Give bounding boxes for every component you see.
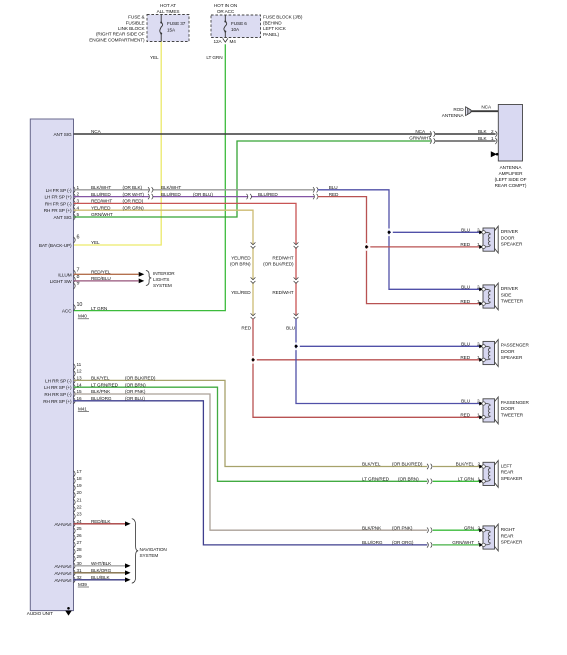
wire LT GRN to left rear speaker	[433, 480, 482, 482]
right rear speaker caption	[501, 527, 523, 544]
pin13 labels	[91, 376, 156, 381]
audio unit pin names 1-5	[44, 188, 72, 220]
svg-text:DOOR: DOOR	[501, 349, 515, 354]
svg-text:RED/WHT: RED/WHT	[91, 199, 112, 204]
svg-text:M41: M41	[78, 406, 87, 411]
connector YEL/RED to RED	[251, 313, 256, 319]
svg-text:LH FR SP (+): LH FR SP (+)	[45, 195, 73, 200]
svg-text:RED/BLK: RED/BLK	[91, 519, 111, 524]
svg-text:RH RR SP (+): RH RR SP (+)	[43, 399, 72, 404]
wire pin7 RED/YEL	[74, 273, 139, 275]
svg-text:LEFT KICK: LEFT KICK	[263, 26, 287, 31]
svg-text:BLU/BLK: BLU/BLK	[91, 575, 111, 580]
svg-text:(LEFT SIDE OF: (LEFT SIDE OF	[495, 177, 527, 182]
svg-text:(OR BLU): (OR BLU)	[125, 396, 145, 401]
fuse block left caption	[89, 15, 145, 43]
svg-text:20: 20	[77, 490, 83, 495]
left rear speaker pin labels	[456, 462, 481, 482]
svg-text:BLU: BLU	[461, 399, 471, 404]
svg-text:GRN/WHT: GRN/WHT	[91, 212, 113, 217]
audio unit pin stubs 11-16	[74, 362, 83, 404]
svg-text:LEFT: LEFT	[501, 464, 512, 469]
svg-text:YEL: YEL	[150, 55, 159, 60]
connector right rear 1	[427, 542, 432, 547]
svg-text:OR ACC: OR ACC	[217, 9, 235, 14]
wire pin31 BLK/ORG	[74, 572, 126, 574]
svg-text:REAR COMPT): REAR COMPT)	[495, 183, 527, 188]
wire RED driver branch	[318, 197, 482, 304]
right rear speaker	[479, 524, 498, 551]
svg-text:(OR RED): (OR RED)	[123, 199, 144, 204]
junction passenger door BLU	[292, 343, 300, 351]
svg-text:SYSTEM: SYSTEM	[140, 553, 159, 558]
svg-text:SPEAKER: SPEAKER	[501, 476, 523, 481]
audio unit box	[30, 119, 73, 611]
fuse F6 symbol	[224, 15, 227, 38]
wire pin13 BLK/YEL	[74, 380, 428, 466]
wire BLK/YEL to left rear speaker	[433, 466, 482, 468]
svg-text:SPEAKER: SPEAKER	[501, 355, 523, 360]
pin15 labels	[91, 389, 146, 394]
svg-text:GRN/WHT: GRN/WHT	[452, 540, 474, 545]
connector left rear 2	[427, 464, 432, 469]
arrow pin32	[125, 577, 131, 582]
svg-text:RED: RED	[460, 355, 470, 360]
svg-text:ACC: ACC	[62, 309, 72, 314]
wire: LT GRN from fuse 6 to pin 10	[74, 44, 226, 310]
svg-text:AV-NAVI: AV-NAVI	[54, 571, 71, 576]
svg-text:DRIVER: DRIVER	[501, 229, 519, 234]
arrow pin24	[125, 521, 131, 526]
svg-text:BLU/ORG: BLU/ORG	[362, 540, 383, 545]
svg-text:BLK: BLK	[478, 136, 488, 141]
junction driver door RED	[363, 243, 371, 251]
svg-text:RED/WHT: RED/WHT	[272, 290, 293, 295]
fuse block label HOT IN ON OR ACC	[214, 3, 237, 14]
svg-text:M4: M4	[230, 39, 237, 44]
connector left rear 1	[427, 479, 432, 484]
driver side tweeter pin labels	[460, 285, 480, 304]
junction passenger door RED	[249, 356, 257, 364]
connector pin2 a	[148, 194, 153, 199]
wire BLU passenger branch	[296, 319, 482, 404]
svg-text:22: 22	[77, 504, 83, 509]
svg-text:RED/WHT: RED/WHT	[272, 256, 293, 261]
wire RED passenger branch	[253, 319, 482, 418]
left rear wire labels	[362, 462, 423, 482]
left rear speaker caption	[501, 464, 523, 481]
svg-text:LINK BLOCK: LINK BLOCK	[118, 26, 146, 31]
fuse block label HOT AT ALL TIMES	[157, 3, 180, 14]
driver side tweeter caption	[501, 286, 524, 303]
pin4 labels	[91, 205, 144, 210]
svg-text:27: 27	[77, 540, 83, 545]
svg-text:LH RR SP (+): LH RR SP (+)	[44, 385, 72, 390]
rod antenna label	[442, 107, 465, 118]
wire GRN/WHT to antenna amplifier (from pin 5)	[74, 141, 431, 217]
connector RED/WHT upper	[294, 242, 299, 248]
svg-text:(RIGHT REAR SIDE OF: (RIGHT REAR SIDE OF	[96, 32, 145, 37]
svg-text:INTERIOR: INTERIOR	[153, 271, 175, 276]
svg-text:ALL TIMES: ALL TIMES	[157, 9, 180, 14]
svg-text:REAR: REAR	[501, 533, 514, 538]
svg-text:SPEAKER: SPEAKER	[501, 540, 523, 545]
svg-text:BLK/YEL: BLK/YEL	[91, 376, 110, 381]
svg-text:BLK/YEL: BLK/YEL	[456, 462, 475, 467]
pin 9 stub	[74, 283, 76, 289]
svg-text:FUSE BLOCK (J/B): FUSE BLOCK (J/B)	[263, 15, 303, 20]
connector RED/WHT to BLU	[294, 313, 299, 319]
connector pin2 b	[247, 194, 252, 199]
svg-text:(OR BRN): (OR BRN)	[230, 261, 251, 266]
pin2 labels	[91, 192, 278, 197]
wire pin14 LT GRN/RED	[74, 387, 428, 481]
svg-text:RH FR SP (-): RH FR SP (-)	[45, 201, 72, 206]
antenna amplifier ground	[491, 151, 499, 157]
svg-text:M39: M39	[78, 582, 87, 587]
svg-text:ANTENNA: ANTENNA	[442, 113, 465, 118]
svg-text:BLU: BLU	[329, 185, 339, 190]
svg-text:YEL: YEL	[91, 240, 100, 245]
svg-text:7: 7	[77, 267, 80, 273]
fuse & fusible link block (dashed box)	[147, 15, 189, 42]
svg-text:25: 25	[77, 526, 83, 531]
passenger door tweeter caption	[501, 400, 530, 417]
svg-text:AV-NAVI: AV-NAVI	[54, 564, 71, 569]
svg-text:ENGINE COMPARTMENT): ENGINE COMPARTMENT)	[89, 37, 145, 42]
svg-text:23: 23	[77, 512, 83, 517]
svg-text:12: 12	[77, 369, 83, 374]
svg-text:RH RR SP (-): RH RR SP (-)	[44, 392, 72, 397]
fuse F37 symbol	[160, 15, 163, 42]
fuse block J/B (dashed box)	[211, 15, 261, 38]
navigation caption	[140, 547, 167, 558]
svg-text:SPEAKER: SPEAKER	[501, 242, 523, 247]
fuse F37 value label	[167, 21, 186, 32]
navigation brace	[132, 519, 138, 584]
svg-text:LIGHT SW: LIGHT SW	[50, 279, 72, 284]
svg-text:YEL/RED: YEL/RED	[231, 256, 251, 261]
svg-text:RH FR SP (+): RH FR SP (+)	[44, 208, 72, 213]
arrow pin31	[125, 570, 131, 575]
svg-text:RED: RED	[460, 242, 470, 247]
svg-text:HOT AT: HOT AT	[160, 3, 176, 8]
svg-text:BLU/ORG: BLU/ORG	[91, 396, 112, 401]
svg-text:BLU: BLU	[286, 325, 296, 330]
svg-text:26: 26	[77, 533, 83, 538]
arrow pin7	[139, 272, 145, 277]
fuse block right caption	[263, 15, 303, 37]
audio unit pin stubs 24-32	[74, 519, 83, 583]
connector YEL/RED upper	[251, 242, 256, 248]
label BLK 1	[478, 136, 494, 141]
svg-text:RED: RED	[460, 413, 470, 418]
svg-text:(OR BLK/RED): (OR BLK/RED)	[263, 261, 294, 266]
svg-text:PASSENGER: PASSENGER	[501, 343, 530, 348]
svg-text:14: 14	[77, 382, 83, 387]
wire pin3 RED/WHT vertical	[74, 203, 297, 244]
wire pin8 RED/BLU	[74, 280, 139, 282]
svg-text:6: 6	[77, 234, 80, 240]
svg-text:(OR BLU): (OR BLU)	[193, 192, 213, 197]
wire: YEL from fuse 37 to pin 6	[74, 42, 162, 246]
svg-text:LT GRN: LT GRN	[91, 306, 107, 311]
svg-text:BLK/YEL: BLK/YEL	[362, 462, 381, 467]
svg-text:(OR ORG): (OR ORG)	[392, 540, 414, 545]
svg-text:TWEETER: TWEETER	[501, 412, 524, 417]
svg-text:YEL/RED: YEL/RED	[231, 290, 251, 295]
fuse F6 value label	[231, 21, 247, 32]
pin 10 stub	[74, 304, 76, 310]
svg-text:NCA: NCA	[91, 129, 102, 134]
svg-text:PANEL): PANEL)	[263, 32, 280, 37]
labels RED/WHT (OR BLK/RED)	[263, 256, 294, 267]
svg-text:AV-NAVI: AV-NAVI	[54, 522, 71, 527]
svg-text:10: 10	[77, 302, 83, 308]
rod antenna symbol	[466, 107, 499, 116]
connector pin1 b	[313, 187, 318, 192]
driver door speaker	[479, 226, 498, 253]
wire BLU driver branch	[318, 190, 482, 289]
antenna amplifier box	[498, 105, 522, 162]
antenna amplifier caption	[495, 165, 527, 188]
svg-text:(OR BLK/RED): (OR BLK/RED)	[125, 376, 156, 381]
svg-text:18: 18	[77, 476, 83, 481]
wire pin1 BLK/WHT	[74, 189, 150, 191]
wire YEL/RED mid segment	[252, 283, 254, 315]
svg-text:29: 29	[77, 554, 83, 559]
svg-text:ANT SIG: ANT SIG	[54, 132, 72, 137]
svg-text:(BEHIND: (BEHIND	[263, 20, 282, 25]
svg-text:19: 19	[77, 483, 83, 488]
pin 8 stub	[74, 276, 76, 282]
svg-text:ANT SIG: ANT SIG	[54, 215, 72, 220]
svg-text:FUSE 37: FUSE 37	[167, 21, 186, 26]
junction driver door BLU	[385, 229, 393, 237]
svg-text:RIGHT: RIGHT	[501, 527, 515, 532]
svg-text:ANTENNA: ANTENNA	[500, 165, 523, 170]
connector RED/WHT lower	[294, 277, 299, 283]
svg-text:NCA: NCA	[415, 129, 426, 134]
wire pin2 BLU/RED	[74, 196, 150, 198]
connector on NCA wire	[430, 131, 435, 136]
svg-text:PASSENGER: PASSENGER	[501, 400, 530, 405]
svg-text:BLU: BLU	[461, 342, 471, 347]
pin3 labels	[91, 199, 144, 204]
svg-text:21: 21	[77, 497, 83, 502]
passenger door tweeter pin labels	[460, 399, 480, 418]
svg-text:(OR BLK/RED): (OR BLK/RED)	[392, 462, 423, 467]
svg-text:RED/YEL: RED/YEL	[91, 270, 111, 275]
svg-text:RED: RED	[241, 325, 251, 330]
svg-text:DOOR: DOOR	[501, 406, 515, 411]
svg-text:12A: 12A	[213, 39, 222, 44]
svg-text:28: 28	[77, 547, 83, 552]
svg-text:(OR PNK): (OR PNK)	[125, 389, 146, 394]
wire pin32 BLU/BLK	[74, 579, 126, 581]
pin14 labels	[91, 382, 146, 387]
svg-text:BAT (BACK-UP): BAT (BACK-UP)	[39, 243, 72, 248]
passenger door speaker caption	[501, 343, 530, 360]
svg-text:WHT/BLK: WHT/BLK	[91, 561, 112, 566]
arrow pin8	[139, 279, 145, 284]
svg-text:(OR PNK): (OR PNK)	[392, 525, 413, 530]
svg-text:BLK/PNK: BLK/PNK	[362, 525, 382, 530]
interior lights brace	[146, 271, 151, 286]
wire GRN to right rear speaker	[433, 529, 482, 531]
right rear speaker pin labels	[452, 525, 480, 545]
passenger door speaker pin labels	[460, 342, 480, 361]
wire pin24 RED/BLK	[74, 523, 126, 525]
svg-text:LT GRN/RED: LT GRN/RED	[91, 382, 119, 387]
svg-text:AV-NAVI: AV-NAVI	[54, 578, 71, 583]
wire NCA to antenna amplifier	[74, 133, 431, 135]
svg-text:RED/BLU: RED/BLU	[91, 276, 111, 281]
interior lights caption	[153, 271, 175, 288]
wire pin4 YEL/RED vertical	[74, 210, 254, 244]
svg-text:BLK: BLK	[478, 129, 488, 134]
svg-text:BLU: BLU	[461, 228, 471, 233]
audio unit pin stubs 17-23	[74, 469, 83, 520]
wire RED/WHT mid segment	[295, 283, 297, 315]
passenger door speaker	[479, 340, 498, 367]
svg-text:NCA: NCA	[481, 105, 492, 110]
wire pin16 BLU/ORG	[74, 401, 428, 545]
audio unit case ground	[65, 607, 72, 616]
svg-text:(OR BLK): (OR BLK)	[123, 185, 143, 190]
svg-text:LT GRN: LT GRN	[458, 477, 474, 482]
svg-text:FUSE 6: FUSE 6	[231, 21, 247, 26]
connector pin2 c	[313, 194, 318, 199]
svg-text:LIGHTS: LIGHTS	[153, 277, 169, 282]
svg-text:17: 17	[77, 469, 83, 474]
svg-text:BLK/ORG: BLK/ORG	[91, 568, 112, 573]
wire pin15 BLK/PNK	[74, 394, 428, 530]
svg-text:DRIVER: DRIVER	[501, 286, 519, 291]
svg-text:ILLUM: ILLUM	[58, 272, 72, 277]
svg-text:LT GRN/RED: LT GRN/RED	[362, 477, 390, 482]
svg-text:M40: M40	[78, 314, 87, 319]
svg-text:BLK/PNK: BLK/PNK	[91, 389, 111, 394]
labels YEL/RED (OR BRN)	[230, 256, 251, 267]
svg-text:(OR WHT): (OR WHT)	[123, 192, 145, 197]
svg-text:BLU/RED: BLU/RED	[258, 192, 278, 197]
driver side tweeter	[479, 283, 498, 310]
svg-text:YEL/RED: YEL/RED	[91, 205, 111, 210]
svg-text:(OR BRN): (OR BRN)	[398, 477, 419, 482]
svg-text:FUSIBLE: FUSIBLE	[126, 20, 145, 25]
svg-text:RED: RED	[329, 192, 339, 197]
svg-text:BLU/RED: BLU/RED	[161, 192, 181, 197]
connector right rear 2	[427, 528, 432, 533]
svg-text:11: 11	[77, 362, 82, 367]
svg-text:LT GRN: LT GRN	[206, 55, 222, 60]
connector pin1 a	[148, 187, 153, 192]
wire pin30 WHT/BLK	[74, 565, 126, 567]
svg-text:BLU: BLU	[461, 285, 471, 290]
svg-text:BLK/WHT: BLK/WHT	[161, 185, 181, 190]
svg-text:(OR GRN): (OR GRN)	[123, 205, 145, 210]
svg-text:ROD: ROD	[453, 107, 464, 112]
svg-text:HOT IN ON: HOT IN ON	[214, 3, 237, 8]
svg-text:NAVIGATION: NAVIGATION	[140, 547, 167, 552]
pin1 labels	[91, 185, 181, 190]
svg-text:SYSTEM: SYSTEM	[153, 283, 172, 288]
connector on GRN/WHT wire	[430, 138, 435, 143]
svg-text:RED: RED	[460, 299, 470, 304]
svg-text:BLK/WHT: BLK/WHT	[91, 185, 111, 190]
right rear wire labels	[362, 525, 414, 545]
pin16 labels	[91, 396, 145, 401]
svg-text:GRN: GRN	[464, 525, 474, 530]
left rear speaker	[479, 461, 498, 488]
connector YEL/RED lower	[251, 277, 256, 283]
audio unit pin names 13-16	[43, 378, 72, 403]
svg-text:(OR BRN): (OR BRN)	[125, 382, 146, 387]
amplifier pin 2 stub	[495, 131, 497, 137]
passenger door tweeter	[479, 397, 498, 424]
driver door speaker caption	[501, 229, 523, 246]
amplifier pin 1 stub	[495, 138, 497, 144]
label BLK 2	[478, 129, 494, 134]
svg-text:15A: 15A	[167, 28, 176, 33]
connector 12A M4 symbol	[223, 38, 228, 42]
pin 7 stub	[74, 270, 76, 276]
svg-text:GRN/WHT: GRN/WHT	[409, 135, 431, 140]
svg-text:LH RR SP (-): LH RR SP (-)	[45, 378, 72, 383]
svg-text:TWEETER: TWEETER	[501, 298, 524, 303]
arrow pin30	[125, 563, 131, 568]
audio unit pin names AV-NAVI	[54, 522, 71, 583]
svg-text:SIDE: SIDE	[501, 292, 512, 297]
svg-text:10A: 10A	[231, 27, 240, 32]
svg-text:DOOR: DOOR	[501, 235, 515, 240]
svg-text:FUSE &: FUSE &	[128, 15, 145, 20]
svg-text:AUDIO UNIT: AUDIO UNIT	[27, 611, 53, 616]
svg-text:BLU/RED: BLU/RED	[91, 192, 111, 197]
pin 6 stub	[74, 237, 76, 243]
audio unit pin stubs 1-5	[74, 185, 80, 220]
driver door speaker pin labels	[460, 228, 480, 248]
wire GRN/WHT to right rear speaker	[433, 544, 482, 546]
svg-text:AMPLIFIER: AMPLIFIER	[499, 171, 524, 176]
svg-text:LH FR SP (-): LH FR SP (-)	[46, 188, 72, 193]
svg-text:REAR: REAR	[501, 470, 514, 475]
